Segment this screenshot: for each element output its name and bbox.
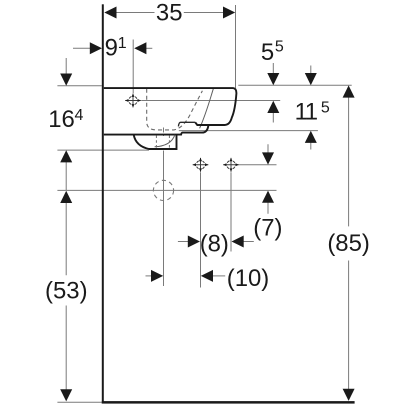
dimension 5.5: [273, 63, 311, 123]
dimension 16.4 bottom line: [57, 149, 149, 151]
dimension (53) arrows: [60, 191, 72, 402]
svg-text:5: 5: [321, 99, 330, 116]
basin outer outline thick: [104, 88, 237, 125]
drain centerline horizontal: [57, 128, 276, 287]
svg-text:(7): (7): [253, 215, 282, 242]
fixing holes vertical lines: [201, 165, 277, 288]
dimension 11.5: [310, 142, 312, 150]
svg-text:(10): (10): [227, 265, 270, 292]
drain pipe hidden edges dashed: [156, 135, 169, 148]
extension line right of 35: [235, 5, 237, 88]
svg-text:35: 35: [156, 0, 183, 27]
dimension (85) line: [348, 97, 350, 390]
svg-text:16: 16: [48, 106, 75, 133]
svg-text:5: 5: [261, 39, 274, 66]
svg-text:(85): (85): [327, 230, 370, 257]
svg-text:(8): (8): [200, 230, 229, 257]
wall: [102, 4, 104, 403]
basin interior dashed outline: [147, 89, 203, 130]
extension line tap axis: [132, 40, 134, 94]
dimension 9.1 lines: [73, 40, 152, 94]
dimension (8): [178, 241, 254, 243]
dimension (53) line: [57, 202, 101, 402]
dimension 16.4 arrows: [60, 74, 72, 163]
dimension 16.4 top line: [57, 58, 149, 190]
svg-text:9: 9: [105, 35, 118, 62]
dimension (7): [267, 144, 269, 214]
line from right fixing hole to (7): [239, 164, 277, 166]
floor extension line left: [57, 401, 101, 403]
floor: [102, 401, 355, 404]
bowl bottom reference line right: [179, 130, 318, 132]
tap centerline extension right: [141, 100, 280, 102]
svg-text:(53): (53): [45, 277, 88, 304]
siphon cover small bump thin: [178, 122, 195, 126]
dimension 9.1 arrows: [90, 42, 147, 54]
svg-text:1: 1: [118, 35, 127, 52]
fixing hole crosshair left: [193, 158, 209, 172]
fixing hole crosshair right: [223, 158, 239, 172]
svg-text:5: 5: [275, 39, 284, 56]
drain hole dashed circle: [153, 180, 173, 200]
drain recess thin arc: [155, 135, 175, 147]
basin underside / trap outline thick: [104, 126, 209, 149]
dimension 35 line: [116, 5, 236, 88]
deck front contour thin: [200, 89, 214, 129]
top reference line right (basin top level): [141, 85, 352, 130]
dimension 35 arrows: [104, 7, 235, 19]
dimension (85) arrows: [343, 85, 355, 401]
dimension (10): [146, 275, 226, 277]
svg-text:4: 4: [75, 107, 84, 124]
svg-text:11: 11: [295, 98, 318, 125]
drain axis vertical: [163, 151, 165, 287]
